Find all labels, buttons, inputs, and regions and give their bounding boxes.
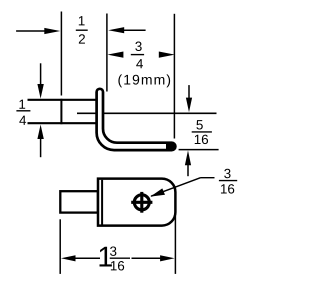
pin (plan)	[60, 191, 98, 212]
fraction bar 1-3/16	[110, 257, 130, 259]
pin centerline	[77, 112, 217, 114]
pin top edge with extension line	[28, 99, 97, 101]
bracket body: vertical bar, elbow, horizontal leg	[97, 89, 176, 150]
leader shoulder	[201, 177, 215, 179]
fraction bar 3/16	[219, 180, 237, 182]
hole cross vertical	[140, 192, 143, 213]
dimension 1/2+3/4 shared extension line at bar right face	[106, 14, 108, 92]
dimension 3/4 right arrowhead	[159, 52, 175, 58]
text num12_1	[79, 16, 85, 25]
fraction bar 5/16	[192, 131, 212, 133]
dimension 1-3/16 right extension line	[174, 216, 176, 274]
text frac16	[111, 261, 124, 270]
dimension 1/4 down arrow	[40, 63, 42, 84]
dimension 3/4 left arrowhead	[107, 52, 123, 58]
body (plan, rounded right end)	[98, 179, 175, 226]
dimension 3/4 extension line at leg right end	[173, 14, 175, 139]
text num14_4	[19, 116, 26, 125]
text num34_3	[135, 42, 141, 51]
dimension 1/2 right arrow with tail	[108, 27, 124, 33]
text t19mm	[118, 74, 170, 87]
leg solid tip	[166, 142, 175, 151]
leader arrowhead at hole	[150, 188, 165, 196]
hole circle	[134, 195, 149, 210]
fraction bar 3/4	[131, 54, 144, 56]
pin left edge	[60, 99, 62, 124]
dimension 1/2 extension line at pin left end	[60, 12, 62, 96]
text num316_16	[221, 184, 234, 193]
bend line	[101, 180, 103, 225]
dimension 1/4 up arrow	[37, 125, 43, 140]
extension line below leg bottom	[179, 149, 219, 151]
dimension 5/16 down arrow to centerline	[188, 85, 190, 98]
dimension 1-3/16 left arrow with tail	[61, 255, 76, 261]
leader line	[151, 178, 201, 197]
dimension 1-3/16 left extension line	[59, 219, 61, 274]
text num516_16	[195, 135, 208, 144]
dimension 5/16 up arrow	[185, 150, 191, 165]
dimension 1-3/16 right arrow with tail	[160, 255, 175, 261]
text num516_5	[196, 120, 202, 129]
fraction bar 1/2	[76, 29, 88, 31]
text num34_4	[136, 59, 143, 68]
dimension 1/2 left arrow	[16, 30, 45, 32]
text big1	[100, 247, 112, 267]
text frac3	[110, 246, 116, 255]
text num316_3	[224, 169, 230, 178]
hole cross horizontal	[131, 201, 152, 204]
pin bottom edge with extension line	[28, 122, 97, 124]
text num12_2	[79, 34, 85, 43]
fraction bar 1/4	[16, 110, 30, 112]
text num14_1	[19, 100, 25, 109]
